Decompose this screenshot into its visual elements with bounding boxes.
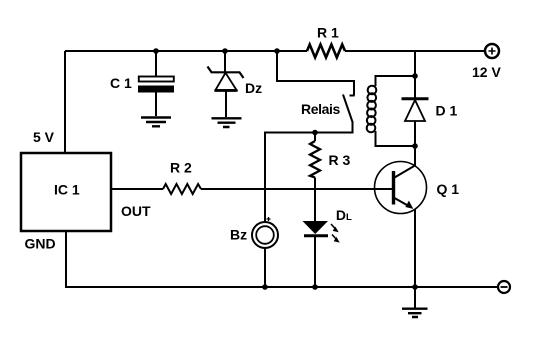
diode D1 xyxy=(402,99,429,146)
svg-text:Bz: Bz xyxy=(230,227,247,243)
svg-text:Relais: Relais xyxy=(301,101,340,117)
node junction coil top xyxy=(412,73,418,79)
buzzer Bz xyxy=(252,217,278,287)
node junction relay branch xyxy=(274,48,280,54)
relay switch contact tick xyxy=(350,95,355,97)
coil relay windings xyxy=(367,86,377,133)
ground below Dz xyxy=(212,118,242,127)
svg-text:R 2: R 2 xyxy=(170,160,192,176)
svg-text:GND: GND xyxy=(25,236,56,252)
resistor R2 xyxy=(163,184,201,194)
relay switch blade xyxy=(343,95,353,123)
svg-text:R 3: R 3 xyxy=(329,152,351,168)
wire R2 to base xyxy=(201,188,392,190)
wire relay contact branch xyxy=(277,51,354,96)
svg-text:5 V: 5 V xyxy=(33,129,55,145)
terminal +12V xyxy=(485,44,499,58)
wire 12V rail to coil node xyxy=(414,51,416,98)
node junction C1 top xyxy=(153,48,159,54)
node junction emitter bottom xyxy=(412,284,418,290)
LED DL xyxy=(303,221,340,287)
capacitor C1 xyxy=(138,51,174,116)
node junction Dz top xyxy=(222,48,228,54)
svg-text:C 1: C 1 xyxy=(110,75,132,91)
node junction R3 top xyxy=(312,130,318,136)
terminal minus xyxy=(498,281,510,293)
svg-text:Q 1: Q 1 xyxy=(437,181,460,197)
transistor Q1 xyxy=(375,162,427,214)
resistor R1 xyxy=(307,45,345,58)
svg-text:D 1: D 1 xyxy=(436,102,458,118)
node junction Bz bottom xyxy=(262,284,268,290)
ground below C1 xyxy=(141,118,171,127)
svg-text:R 1: R 1 xyxy=(317,25,339,41)
wire IC1 GND pin to bottom rail xyxy=(65,231,67,287)
node junction coil bottom xyxy=(412,143,418,149)
zener diode Dz xyxy=(208,51,244,117)
wire bottom rail xyxy=(65,286,497,288)
wire emitter to bottom rail xyxy=(414,209,416,287)
svg-text:DL: DL xyxy=(336,207,352,223)
wire from switch to R3/Bz rail xyxy=(265,121,353,223)
svg-text:12 V: 12 V xyxy=(472,64,501,80)
wire top rail left segment xyxy=(65,50,307,52)
svg-text:IC 1: IC 1 xyxy=(54,182,80,198)
svg-text:Dz: Dz xyxy=(245,80,262,96)
ground bottom xyxy=(402,287,428,317)
wire coil bottom to collector xyxy=(414,146,416,166)
coil relay (bracket wires) xyxy=(376,76,416,146)
node junction DL bottom xyxy=(312,284,318,290)
wire OUT pin xyxy=(111,188,163,190)
IC1 box xyxy=(21,153,111,231)
wire left vertical drop to IC1 xyxy=(64,51,66,153)
svg-text:OUT: OUT xyxy=(121,203,151,219)
resistor R3 xyxy=(310,133,320,222)
wire top rail right segment xyxy=(345,50,485,52)
